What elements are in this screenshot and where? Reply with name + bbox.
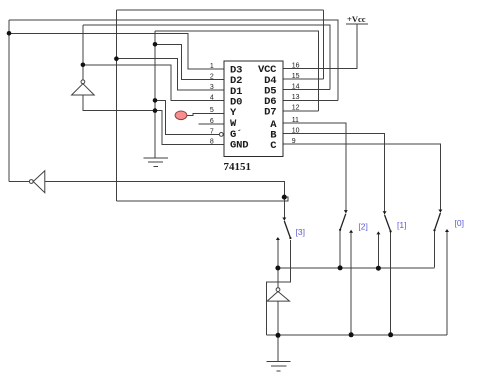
wire switch 3 right throw to ground rail: [267, 240, 291, 335]
svg-text:13: 13: [292, 94, 300, 101]
wire net-D3D6 top line to D6: [9, 20, 338, 100]
wire ground rail: [267, 334, 447, 336]
wire pin 10 B to switch 1: [283, 134, 385, 215]
junction dot net-A at pin3 branch: [114, 56, 119, 61]
inverter U1 triangle lower: [267, 292, 289, 302]
svg-text:10: 10: [292, 128, 300, 135]
wire pin 9 C to switch 0: [283, 144, 440, 212]
ground symbol bottom bar 2: [271, 365, 286, 367]
switch 1 open contact arrow: [376, 231, 380, 234]
wire ground branch to pin 7 G: [155, 100, 219, 134]
inverter U2 triangle left-pointing: [33, 171, 45, 193]
svg-text:[1]: [1]: [397, 220, 406, 230]
wire switch 1 left throw: [377, 233, 379, 268]
inverter U1 bubble: [276, 288, 280, 292]
svg-text:3: 3: [210, 84, 214, 91]
svg-text:12: 12: [292, 105, 300, 112]
wire net-D0D5 branch to pin 4 D0: [83, 65, 224, 101]
switch 2 open contact arrow: [349, 230, 353, 233]
svg-text:7: 7: [210, 128, 214, 135]
wire ground rail stub to ground symbol: [277, 335, 279, 361]
junction dot ground rail at inverter U1: [276, 333, 281, 338]
junction dot net-D0D5 at inverter U3 output: [81, 63, 86, 68]
switch 2 common contact arrow: [344, 210, 348, 213]
wire inverter U3 input to ground net: [83, 95, 155, 111]
logic probe on Y output: [175, 111, 187, 120]
wire switch 1 right throw: [390, 232, 392, 335]
junction dot high rail at switch 3: [275, 266, 280, 271]
wire net-A down to pin 15 D4: [323, 10, 325, 79]
wire high rail: [278, 267, 435, 269]
wire net-D0D5 top line: [83, 25, 330, 90]
wire net-A bottom run to switch 3: [116, 197, 288, 201]
ground symbol upper-left bar 1: [143, 157, 168, 159]
svg-text:[2]: [2]: [358, 221, 367, 231]
svg-text:11: 11: [292, 117, 299, 124]
wire ground net vertical: [154, 31, 156, 158]
wire pin 12 D7: [283, 110, 318, 112]
IC U4 74151 body: [224, 61, 283, 157]
inverter U2 bubble: [29, 180, 33, 184]
wire +Vcc bar: [346, 23, 368, 25]
switch 1 lever: [385, 215, 391, 231]
wire pin 15 D4: [283, 78, 324, 80]
junction dot switch 3 common node: [282, 195, 287, 200]
wire net-D3D6 vertical left edge: [8, 20, 10, 182]
svg-text:[3]: [3]: [296, 227, 305, 237]
ground symbol upper-left bar 2: [148, 161, 163, 163]
switch 3 lever: [284, 221, 290, 238]
svg-text:C: C: [270, 140, 277, 152]
wire inverter U1 input to ground rail: [277, 301, 279, 335]
wire inverter U2 input from switch 3: [45, 182, 284, 198]
inverter U3 bubble: [81, 80, 85, 84]
switch 0 lever: [435, 213, 441, 230]
svg-text:+Vcc: +Vcc: [347, 14, 366, 24]
wire pin 6 W stub: [199, 123, 224, 125]
svg-text:16: 16: [292, 62, 300, 69]
svg-text:8: 8: [210, 139, 214, 146]
switch 0 lever tip: [433, 229, 435, 231]
wire pin 16 VCC to +Vcc: [283, 24, 357, 69]
wire probe to pin 5 Y: [187, 113, 224, 115]
svg-text:15: 15: [292, 73, 300, 80]
wire inverter U3 output stub: [82, 65, 84, 80]
svg-text:9: 9: [292, 138, 296, 145]
svg-text:14: 14: [292, 84, 300, 91]
junction dot high rail at switch 2: [338, 265, 343, 270]
wire ground branch to pin 8 GND: [155, 111, 224, 145]
switch 2 lever tip: [339, 229, 341, 231]
switch 3 open contact arrow: [276, 237, 280, 240]
wire net-D0D5 vertical above inverter U3: [82, 25, 84, 65]
wire net-A top line: [116, 9, 323, 11]
wire net-A vertical left: [115, 10, 117, 201]
wire switch 2 left throw: [339, 231, 341, 268]
wire pin 13 D6: [283, 99, 338, 101]
switch 0 common contact arrow: [438, 210, 442, 213]
wire ground branch to pin 2 D2: [155, 44, 224, 79]
junction dot net-D3D6 at pin1 branch: [7, 31, 12, 36]
wire switch 0 left throw to high rail: [434, 231, 436, 268]
svg-text:4: 4: [210, 95, 214, 102]
svg-text:GND: GND: [230, 140, 248, 152]
ground symbol bottom bar 1: [267, 361, 291, 363]
junction dot ground rail at switch 1: [388, 332, 393, 337]
switch 1 common contact arrow: [383, 211, 387, 214]
switch 0 open contact arrow: [445, 229, 449, 232]
inverter U3 triangle upper-left: [72, 84, 95, 95]
svg-text:6: 6: [210, 118, 214, 125]
ground symbol upper-left bar 3: [153, 166, 158, 168]
junction dot ground at pin8 branch: [153, 108, 158, 113]
svg-text:[0]: [0]: [455, 218, 464, 228]
svg-text:1: 1: [210, 63, 214, 70]
svg-text:5: 5: [210, 107, 214, 114]
junction dot ground at pin7 branch: [153, 98, 158, 103]
switch 3 lever tip: [289, 237, 291, 239]
svg-text:D7: D7: [264, 107, 276, 119]
wire switch 2 right throw: [350, 231, 352, 335]
wire pin 11 A to switch 2: [283, 123, 346, 213]
svg-text:2: 2: [210, 74, 214, 81]
junction dot ground at pin2 branch: [153, 42, 158, 47]
wire net-A branch to pin 3 D1: [116, 59, 224, 90]
ground symbol bottom bar 3: [276, 370, 280, 372]
wire net-D3D6 branch to pin 1: [9, 33, 224, 69]
pin 7 G inversion bubble: [219, 133, 223, 137]
wire switch 0 right throw to ground rail: [446, 231, 448, 335]
svg-text:74151: 74151: [224, 161, 252, 173]
wire pin 14 D5: [283, 89, 330, 91]
wire switch 3 left throw to high rail and inverter U1: [277, 240, 279, 288]
switch 2 lever: [340, 214, 346, 230]
switch 3 common contact arrow: [282, 218, 286, 221]
wire inverter U2 output to bubble: [9, 181, 30, 183]
switch 1 lever tip: [390, 230, 392, 232]
junction dot ground rail at switch 2: [349, 332, 354, 337]
wire switch 3 common: [283, 197, 285, 220]
junction dot high rail at switch 1: [376, 266, 381, 271]
wire ground net top line to pin 12 D7: [155, 31, 318, 111]
